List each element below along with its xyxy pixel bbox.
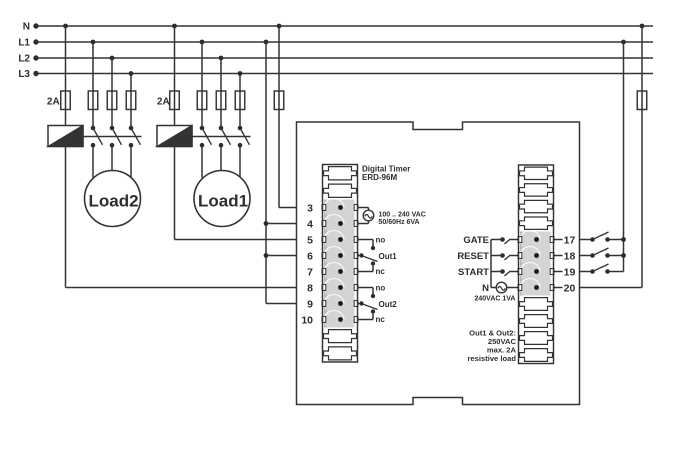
svg-text:17: 17	[564, 234, 576, 246]
svg-text:no: no	[376, 284, 386, 293]
svg-text:20: 20	[564, 282, 576, 294]
svg-text:2A: 2A	[47, 96, 60, 107]
svg-text:nc: nc	[376, 315, 386, 324]
svg-text:Load2: Load2	[88, 191, 138, 210]
svg-text:START: START	[458, 267, 489, 278]
svg-text:ERD-96M: ERD-96M	[362, 173, 397, 182]
svg-text:RESET: RESET	[457, 251, 489, 262]
svg-text:10: 10	[301, 314, 313, 326]
svg-text:GATE: GATE	[463, 235, 489, 246]
svg-text:Out1: Out1	[379, 252, 398, 261]
svg-text:nc: nc	[376, 267, 386, 276]
svg-text:resistive load: resistive load	[467, 354, 516, 363]
svg-text:N: N	[482, 283, 489, 294]
svg-text:5: 5	[307, 234, 313, 246]
svg-text:L3: L3	[18, 69, 30, 80]
svg-text:50/60Hz 6VA: 50/60Hz 6VA	[379, 219, 420, 226]
svg-text:240VAC 1VA: 240VAC 1VA	[475, 295, 516, 302]
svg-text:no: no	[376, 236, 386, 245]
svg-text:100 .. 240 VAC: 100 .. 240 VAC	[379, 212, 426, 219]
svg-text:3: 3	[307, 202, 313, 214]
svg-text:4: 4	[307, 218, 313, 230]
svg-text:19: 19	[564, 266, 576, 278]
svg-text:2A: 2A	[157, 96, 170, 107]
svg-text:6: 6	[307, 250, 313, 262]
svg-text:Out2: Out2	[379, 300, 398, 309]
svg-text:7: 7	[307, 266, 313, 278]
svg-text:18: 18	[564, 250, 576, 262]
svg-text:9: 9	[307, 298, 313, 310]
svg-text:8: 8	[307, 282, 313, 294]
svg-text:Load1: Load1	[198, 191, 248, 210]
svg-text:N: N	[23, 22, 30, 33]
svg-text:L1: L1	[18, 38, 30, 49]
svg-text:L2: L2	[18, 54, 30, 65]
